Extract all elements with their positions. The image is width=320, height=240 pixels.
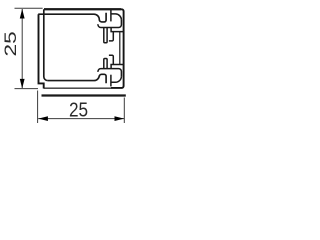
top clip arm line — [98, 20, 122, 28]
trunking outer profile — [44, 9, 124, 88]
svg-text:25: 25 — [2, 31, 20, 56]
bottom-left step and left outer wall — [39, 14, 44, 88]
top clip hook foot — [109, 32, 113, 41]
inner floor + bottom pocket — [48, 74, 106, 83]
bottom-left extension line — [15, 88, 39, 90]
left arrow — [38, 116, 48, 121]
bottom clip hook foot — [109, 55, 113, 64]
down arrow — [20, 79, 25, 89]
right arrow — [115, 116, 125, 121]
bottom dimension line — [38, 118, 124, 120]
inner ceiling + top pocket — [38, 13, 106, 22]
svg-text:25: 25 — [69, 98, 88, 121]
top clip tab — [104, 28, 107, 43]
bottom clip tab — [104, 59, 107, 69]
top clip Z-step — [111, 28, 124, 32]
base bottom face (thin) — [44, 87, 112, 89]
top face extra thickness — [44, 8, 121, 10]
top extension line — [15, 7, 43, 9]
cover bottom seam — [110, 75, 112, 87]
cover bottom corner arc — [111, 76, 122, 82]
inner left wall — [44, 9, 48, 80]
cover top corner arc — [111, 14, 122, 20]
up arrow — [20, 9, 25, 19]
right extension line of bottom dimension — [123, 98, 125, 124]
bottom clip arm line — [98, 69, 122, 77]
bottom clip Z-step — [111, 65, 124, 69]
left extension line of bottom dimension — [37, 91, 39, 124]
cover inner wall — [119, 32, 121, 65]
wall mounting line — [42, 94, 126, 96]
cover top seam — [110, 10, 112, 22]
vertical dimension line — [21, 9, 23, 88]
